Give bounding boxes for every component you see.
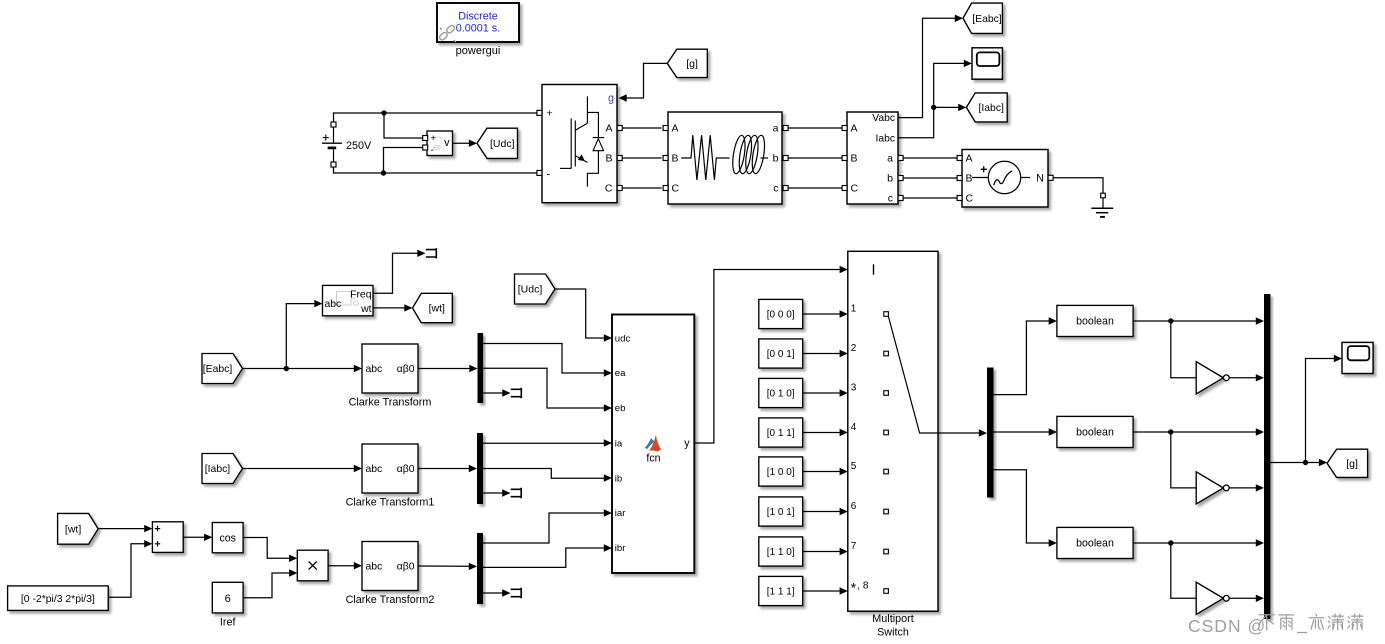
svg-text:6: 6 [851, 501, 857, 512]
wire phase c filter-meas [788, 187, 842, 189]
arrow into boolean3 [1049, 539, 1057, 546]
wire ia [483, 442, 604, 444]
wire voltmeter to Udc goto [453, 142, 470, 144]
demux bar B [477, 433, 483, 504]
svg-text:cos: cos [219, 532, 236, 544]
meas in C port [842, 186, 847, 191]
svg-text:[Eabc]: [Eabc] [972, 14, 1002, 25]
arrow into PLL abc [314, 300, 322, 307]
wire constant 7 to multiport [803, 551, 840, 553]
arrow into multiport port 7 [840, 548, 848, 555]
MATLAB logo icon [645, 435, 662, 452]
filter in B port [663, 156, 668, 161]
DC source + port [331, 122, 336, 127]
wire constant 5 to multiport [803, 471, 840, 473]
ground port [1101, 193, 1106, 198]
goto tag Eabc [963, 3, 1002, 33]
node boolean3 junction [1168, 540, 1173, 545]
IGBT inverter block [542, 85, 617, 203]
arrow into multiport port 6 [840, 508, 848, 515]
wire constant 3 to multiport [803, 392, 840, 394]
terminator B [511, 488, 522, 498]
constant [0 0 0] [759, 299, 803, 328]
arrow mux in 1 [1256, 317, 1264, 324]
node boolean1 junction [1168, 318, 1173, 323]
wire phase B inv-filter [622, 157, 661, 159]
DC source - port [331, 162, 336, 167]
mux bar final [1264, 294, 1270, 619]
arrow into multiport ctrl [840, 266, 848, 273]
goto tag Iabc [966, 93, 1007, 122]
svg-text:3: 3 [851, 382, 857, 393]
arrow into Udc goto [469, 140, 477, 147]
source N port [1048, 175, 1053, 180]
arrow into terminator1 [417, 250, 425, 257]
multiport indicator 6 [884, 509, 889, 514]
arrow mux in 3 [1256, 428, 1264, 435]
svg-text:Switch: Switch [877, 627, 909, 639]
node output junction [1303, 460, 1308, 465]
wire cos to product [243, 538, 290, 559]
wire ea [483, 344, 604, 374]
inverter icon [560, 96, 604, 186]
multiport indicator 2 [884, 351, 889, 356]
wire Eabc branch to PLL [286, 304, 315, 369]
wire product to clarke3 [328, 565, 354, 567]
arrow into terminator A [502, 389, 510, 396]
svg-text:iar: iar [615, 508, 626, 519]
svg-text:2: 2 [851, 343, 857, 354]
arrow into sum1 [144, 525, 152, 532]
svg-text:Multiport: Multiport [872, 613, 913, 625]
arrow into clarke3 [354, 562, 362, 569]
multiport indicator 5 [884, 469, 889, 474]
svg-text:5: 5 [851, 461, 857, 472]
svg-text:4: 4 [851, 422, 857, 433]
wire demux to boolean3 [994, 470, 1050, 543]
CSDN watermark cjk [1259, 614, 1363, 632]
multiport selector diagonal [888, 316, 938, 433]
constant phase vector [8, 586, 109, 611]
arrow into Eabc goto [955, 15, 963, 22]
sum block [152, 522, 183, 553]
arrow mux in 2 [1256, 374, 1264, 381]
wire demux to boolean2 [994, 431, 1050, 433]
arrow into muxA [469, 365, 477, 372]
goto tag wt [413, 293, 453, 322]
arrow into terminator B [502, 489, 510, 496]
wire to NOT2 [1171, 432, 1196, 488]
cos block [212, 523, 243, 553]
arrow into multiport port 1 [840, 310, 848, 317]
arrow into sum2 [144, 540, 152, 547]
arrow mux in 6 [1256, 595, 1264, 602]
svg-text:ia: ia [615, 438, 623, 449]
svg-text:Freq: Freq [350, 290, 372, 301]
clarke transform1 block [362, 444, 418, 493]
PLL freq block [323, 285, 374, 315]
svg-text:[Udc]: [Udc] [518, 284, 543, 296]
svg-text:c: c [888, 192, 893, 204]
wire NOT2 to mux [1229, 487, 1256, 489]
svg-text:[0 1 0]: [0 1 0] [767, 389, 795, 400]
wire to terminator A [483, 392, 503, 394]
svg-text:Clarke Transform2: Clarke Transform2 [346, 594, 435, 606]
svg-text:a: a [887, 152, 893, 164]
svg-text:boolean: boolean [1076, 538, 1114, 550]
NOT gate 3 [1196, 582, 1229, 614]
svg-text:wt: wt [360, 304, 372, 315]
wire dc plus rail [334, 113, 537, 122]
node boolean2 junction [1168, 429, 1173, 434]
multiport port label *, 8 [851, 580, 869, 595]
wire constant 8 to multiport [803, 590, 840, 592]
arrow into fcn ia [604, 439, 612, 446]
svg-text:7: 7 [851, 541, 857, 552]
wire to NOT1 [1171, 321, 1196, 378]
wire Udc to fcn [555, 289, 604, 338]
wire phase C inv-filter [622, 187, 661, 189]
arrow into boolean2 [1049, 428, 1057, 435]
scope block top [972, 48, 1002, 79]
3-phase source block [962, 150, 1048, 208]
constant [1 1 1] [759, 576, 803, 605]
arrow into terminator C [502, 589, 510, 596]
svg-text:A: A [672, 122, 679, 134]
node dc plus junction [381, 110, 386, 115]
svg-text:-: - [431, 145, 434, 156]
node dc minus junction [381, 170, 386, 175]
constant [0 1 1] [759, 418, 803, 447]
arrow into scope2 [1334, 355, 1342, 362]
svg-text:αβ0: αβ0 [397, 364, 415, 375]
wire ib [483, 469, 604, 479]
arrow into fcn eb [604, 404, 612, 411]
wire N to ground [1053, 178, 1103, 193]
svg-text:[1 1 0]: [1 1 0] [767, 547, 795, 558]
svg-text:B: B [851, 152, 858, 164]
arrow into fcn iar [604, 509, 612, 516]
svg-text:B: B [672, 152, 679, 164]
svg-text:[0 0 1]: [0 0 1] [767, 349, 795, 360]
multiport indicator 4 [884, 430, 889, 435]
product block [297, 550, 328, 581]
filter in C port [663, 186, 668, 191]
svg-text:[1 0 1]: [1 0 1] [767, 507, 795, 518]
svg-text:abc: abc [366, 364, 383, 375]
svg-text:N: N [1036, 172, 1044, 184]
multiport indicator 1 [884, 312, 889, 317]
VI measurement block [847, 112, 898, 204]
arrow into fcn ibr [604, 544, 612, 551]
svg-text:A: A [605, 122, 612, 134]
svg-text:powergui: powergui [456, 45, 501, 57]
svg-text:6: 6 [225, 593, 231, 605]
wire to voltmeter + [384, 113, 423, 138]
svg-text:Vabc: Vabc [872, 113, 895, 124]
goto tag g right [1327, 449, 1368, 477]
wire constant 1 to multiport [803, 313, 840, 315]
arrow into inverter g [619, 94, 627, 101]
svg-text:b: b [887, 172, 893, 184]
arrow into clarke2 [354, 465, 362, 472]
svg-text:eb: eb [615, 403, 626, 414]
svg-text:Clarke Transform1: Clarke Transform1 [346, 497, 435, 509]
arrow into fcn ib [604, 474, 612, 481]
boolean block 1 [1057, 305, 1133, 336]
multiport control tick [873, 264, 875, 274]
arrow into muxC [469, 563, 477, 570]
svg-text:+: + [430, 133, 436, 144]
wire eb [483, 368, 604, 408]
from tag Udc [515, 274, 556, 304]
svg-text:C: C [851, 182, 859, 194]
voltage measurement block [427, 131, 453, 156]
svg-text:[Iabc]: [Iabc] [978, 103, 1004, 114]
RL filter block [668, 112, 782, 204]
arrow into multiport port 4 [840, 429, 848, 436]
constant [1 1 0] [759, 537, 803, 566]
wire vector to sum [108, 544, 144, 598]
svg-text:udc: udc [615, 333, 631, 344]
node Iabc junction [931, 105, 936, 110]
svg-text:v: v [444, 137, 450, 149]
svg-text:y: y [684, 437, 690, 449]
svg-text:[wt]: [wt] [65, 523, 81, 535]
wire freq to terminator [373, 253, 418, 293]
terminator C [511, 588, 522, 598]
wire constant 2 to multiport [803, 353, 840, 355]
arrow into fcn ea [604, 369, 612, 376]
wire to voltmeter - [384, 148, 424, 174]
wire Iabc up [898, 63, 965, 137]
DC source battery [322, 127, 342, 162]
svg-text:ea: ea [615, 368, 626, 379]
scope block right [1342, 342, 1373, 373]
wire clarke3 to muxC [418, 565, 469, 567]
svg-text:1: 1 [851, 303, 857, 314]
wire boolean1 to mux [1133, 320, 1256, 322]
NOT gate 1 [1196, 362, 1229, 394]
wire to scope2 [1306, 359, 1335, 463]
svg-text:αβ0: αβ0 [397, 464, 415, 475]
demux bar A [478, 333, 484, 403]
svg-text:ib: ib [615, 473, 622, 484]
constant Iref 6 [212, 582, 243, 613]
svg-text:[g]: [g] [1346, 458, 1358, 470]
node Eabc junction [284, 366, 289, 371]
arrow mux in 5 [1256, 539, 1264, 546]
clarke transform2 block [362, 542, 418, 591]
inverter B port [617, 156, 622, 161]
demux bar out [987, 368, 994, 498]
voltmeter - port [423, 145, 428, 150]
arrow into multiport port 3 [840, 389, 848, 396]
arrow into product1 [289, 555, 297, 562]
boolean block 2 [1057, 416, 1133, 447]
wire phase A inv-filter [622, 127, 661, 129]
from tag Eabc [202, 354, 243, 384]
wire Iref to product [243, 573, 290, 598]
svg-text:B: B [966, 172, 973, 184]
inverter - port [537, 170, 542, 175]
terminator A [511, 388, 522, 398]
arrow into product2 [289, 569, 297, 576]
wire ibr [483, 548, 604, 567]
svg-text:a: a [773, 122, 779, 134]
powergui block [437, 3, 519, 42]
source in B port [957, 176, 962, 181]
multiport indicator 8 [884, 589, 889, 594]
svg-text:[Eabc]: [Eabc] [203, 364, 233, 375]
constant [0 1 0] [759, 378, 803, 407]
arrow into Iabc goto [958, 104, 966, 111]
inverter + port [537, 110, 542, 115]
wire phase b filter-meas [788, 157, 842, 159]
meas out c port [898, 196, 903, 201]
arrow into multiport port 5 [840, 468, 848, 475]
svg-text:0.0001 s.: 0.0001 s. [456, 23, 500, 35]
wire wt to goto [373, 307, 405, 309]
meas in A port [842, 126, 847, 131]
wire iar [483, 513, 604, 543]
svg-text:boolean: boolean [1076, 427, 1114, 439]
arrow into clarke1 [354, 365, 362, 372]
wire mux to outputs [1270, 462, 1319, 464]
svg-text:B: B [605, 152, 612, 164]
svg-text:abc: abc [366, 562, 383, 573]
svg-text:*: * [851, 581, 857, 596]
svg-text:Iabc: Iabc [876, 133, 895, 144]
wire NOT3 to mux [1229, 597, 1256, 599]
svg-text:[Udc]: [Udc] [490, 138, 515, 150]
inverter A port [617, 126, 622, 131]
arrow into demux3 [979, 429, 987, 436]
meas out a port [898, 156, 903, 161]
voltmeter + port [423, 136, 428, 141]
NOT gate 2 [1196, 472, 1229, 504]
wire Iabc to clarke2 [243, 468, 355, 470]
svg-text:250V: 250V [346, 140, 372, 152]
svg-text:Clarke Transform: Clarke Transform [349, 397, 432, 409]
clarke transform block [362, 344, 418, 393]
svg-text:A: A [851, 122, 858, 134]
source in A port [957, 156, 962, 161]
svg-text:boolean: boolean [1076, 316, 1114, 328]
svg-text:Iref: Iref [220, 617, 237, 629]
wire g tag to inverter [627, 63, 668, 98]
filter out b port [783, 156, 788, 161]
wire clarke1 to muxA [418, 368, 470, 370]
svg-text:abc: abc [366, 464, 383, 475]
filter inductor coil [731, 134, 768, 174]
svg-text:-: - [547, 169, 551, 181]
wire to terminator C [483, 592, 503, 594]
wire phase a meas-src [903, 157, 957, 159]
arrow into scope1 [964, 60, 972, 67]
svg-text:+: + [547, 108, 553, 120]
wire Iabc branch to goto [934, 106, 959, 108]
from tag g top [667, 49, 707, 77]
from tag wt [58, 513, 99, 544]
filter in A port [663, 126, 668, 131]
constant [0 0 1] [759, 339, 803, 368]
wire boolean3 to mux [1133, 542, 1256, 544]
multiport switch block [848, 251, 938, 611]
wire constant 4 to multiport [803, 432, 840, 434]
filter resistor zigzag [681, 135, 729, 180]
arrow into muxB [469, 465, 477, 472]
goto tag Udc [477, 128, 518, 158]
arrow into multiport port 2 [840, 350, 848, 357]
inverter C port [617, 186, 622, 191]
svg-text:[wt]: [wt] [429, 303, 445, 315]
wire to terminator B [483, 492, 503, 494]
svg-text:g: g [608, 92, 614, 104]
wire Vabc to Eabc goto [898, 18, 956, 117]
svg-text:CSDN @: CSDN @ [1188, 616, 1266, 636]
arrow into fcn udc [604, 334, 612, 341]
wire wt to sum [98, 528, 145, 530]
svg-text:c: c [773, 182, 778, 194]
svg-text:C: C [672, 182, 680, 194]
svg-text:, 8: , 8 [857, 580, 869, 591]
meas in B port [842, 156, 847, 161]
wire constant 6 to multiport [803, 511, 840, 513]
constant [1 0 0] [759, 457, 803, 486]
source in C port [957, 196, 962, 201]
svg-text:C: C [966, 192, 974, 204]
from tag Iabc [202, 454, 243, 484]
arrow into multiport port 8 [840, 587, 848, 594]
filter out c port [783, 186, 788, 191]
wire fcn y to multiport [694, 270, 840, 444]
multiport switch label [872, 613, 913, 639]
wire dc minus rail [334, 167, 537, 173]
wire NOT1 to mux [1229, 377, 1256, 379]
svg-text:abc: abc [325, 299, 342, 310]
svg-text:A: A [966, 152, 973, 164]
svg-text:[g]: [g] [686, 58, 698, 70]
multiport indicator 3 [884, 391, 889, 396]
terminator top [426, 248, 437, 258]
wire boolean2 to mux [1133, 431, 1256, 433]
svg-text:[Iabc]: [Iabc] [205, 464, 231, 475]
arrow mux in 4 [1256, 484, 1264, 491]
svg-text:fcn: fcn [646, 453, 660, 465]
meas out b port [898, 176, 903, 181]
arrow into wt goto [404, 304, 412, 311]
svg-text:[1 1 1]: [1 1 1] [767, 587, 795, 598]
wire clarke2 to muxB [418, 468, 469, 470]
svg-text:Discrete: Discrete [458, 11, 498, 23]
wire Eabc to clarke [243, 368, 355, 370]
svg-text:[0 1 1]: [0 1 1] [767, 428, 795, 439]
svg-text:[0 -2*pi/3 2*pi/3]: [0 -2*pi/3 2*pi/3] [21, 594, 95, 605]
boolean block 3 [1057, 527, 1133, 558]
wire phase a filter-meas [788, 127, 842, 129]
arrow into g goto [1319, 459, 1327, 466]
svg-text:ibr: ibr [615, 543, 626, 554]
wire multiport to demux [938, 432, 979, 434]
arrow into cos [204, 534, 212, 541]
MATLAB fcn block [612, 315, 694, 574]
svg-text:αβ0: αβ0 [397, 562, 415, 573]
wire to NOT3 [1171, 543, 1196, 598]
svg-text:[0 0 0]: [0 0 0] [767, 310, 795, 321]
constant [1 0 1] [759, 497, 803, 526]
svg-text:[1 0 0]: [1 0 0] [767, 467, 795, 478]
